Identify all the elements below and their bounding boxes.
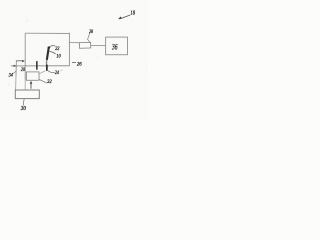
leader 22 bbox=[50, 45, 55, 48]
wire: box 28 to box 36 bbox=[91, 45, 106, 47]
wire: chamber bottom edge extended left bbox=[11, 65, 70, 67]
box 28 bbox=[79, 42, 90, 48]
box 36 bbox=[106, 37, 128, 55]
element bar (left grating) bbox=[36, 61, 38, 70]
element 34 beam line vertical bbox=[15, 60, 17, 75]
wire: chamber right edge bbox=[68, 33, 70, 66]
arrow 18 bbox=[122, 15, 131, 18]
arrowhead into chamber bbox=[22, 60, 25, 62]
leader 32 bbox=[39, 80, 47, 84]
scan grain overlay bbox=[0, 0, 148, 120]
box 32 bbox=[26, 72, 39, 80]
chamber 20 outline bbox=[11, 33, 70, 90]
wire: chamber top edge bbox=[25, 32, 69, 34]
faint tail right of 24 bbox=[60, 70, 63, 72]
element 24 thick part below beam line bbox=[46, 65, 48, 71]
leader 28 bbox=[88, 33, 90, 42]
leader 30 bbox=[22, 99, 25, 106]
background bbox=[0, 0, 148, 120]
arrowhead on bottom beam line bbox=[14, 65, 17, 67]
wire: diagonal box32 to lens 24 bbox=[39, 71, 45, 74]
wire: chamber to box 28 bbox=[70, 42, 80, 44]
leader 24 bbox=[48, 71, 55, 73]
box 30 bbox=[15, 90, 39, 99]
wire: chamber left edge down to box 30 bbox=[24, 33, 26, 80]
wire: beam into chamber bbox=[16, 60, 22, 62]
leader 34 bbox=[12, 71, 16, 74]
arrow box30 to box32 bbox=[30, 83, 32, 89]
element 10/22 sample bar (slanted) bbox=[47, 47, 49, 60]
bar mid faint section bbox=[45, 60, 47, 65]
noise specks bbox=[8, 21, 98, 85]
text layer bbox=[8, 10, 136, 112]
bar top cap bbox=[48, 47, 50, 49]
leader 10 bbox=[49, 51, 56, 54]
leader 26 (dash) bbox=[72, 61, 76, 63]
